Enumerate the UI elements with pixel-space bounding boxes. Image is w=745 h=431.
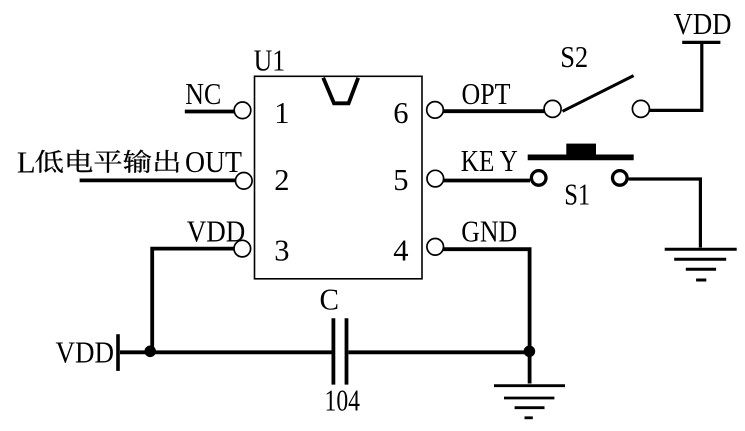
pin 6 circle xyxy=(427,102,444,119)
svg-text:3: 3 xyxy=(274,234,289,268)
annotation text glyph "出" (chu) xyxy=(155,150,179,173)
svg-text:S2: S2 xyxy=(560,39,588,74)
power terminal VDD bottom-left xyxy=(116,334,120,371)
svg-text:VDD: VDD xyxy=(187,213,246,248)
pushbutton S1 button cap xyxy=(566,144,596,155)
ground symbol right (under S1) xyxy=(665,249,737,280)
U1 orientation notch xyxy=(323,78,358,104)
pin 5 circle xyxy=(427,170,444,187)
svg-text:2: 2 xyxy=(274,163,289,197)
annotation text glyph "输" (shu) xyxy=(123,150,151,173)
svg-text:1: 1 xyxy=(274,96,289,130)
svg-text:VDD: VDD xyxy=(674,6,732,41)
wire pin6 OPT lead to S2 xyxy=(443,109,544,113)
annotation text glyph "电" (dian) xyxy=(68,150,93,172)
pin 4 circle xyxy=(427,239,444,256)
pin 2 circle xyxy=(236,173,253,190)
wire S2 to VDD supply xyxy=(649,44,702,111)
wire VDD rail left of capacitor xyxy=(120,350,332,354)
capacitor C left plate xyxy=(331,318,335,384)
svg-text:6: 6 xyxy=(393,96,408,130)
power terminal VDD top-right xyxy=(682,41,720,44)
svg-text:NC: NC xyxy=(185,76,221,111)
svg-text:GND: GND xyxy=(461,213,517,248)
wire S1 to ground xyxy=(629,179,701,248)
svg-text:C: C xyxy=(320,282,340,317)
wire pin2 OUT lead xyxy=(80,178,236,182)
wire pin1 NC lead xyxy=(185,110,235,114)
wire rail right of capacitor to GND node xyxy=(349,350,530,354)
pin 3 circle xyxy=(234,240,251,257)
switch S2 arm xyxy=(563,76,634,112)
switch S2 left contact circle xyxy=(544,100,561,117)
pushbutton S1 left contact circle xyxy=(531,171,546,186)
wire pin5 KEY lead to S1 xyxy=(444,179,530,183)
svg-text:OUT: OUT xyxy=(185,144,242,179)
annotation text glyph "平" (ping) xyxy=(95,150,122,173)
pushbutton S1 right contact circle xyxy=(613,171,628,186)
svg-text:L: L xyxy=(17,144,36,179)
svg-text:U1: U1 xyxy=(254,42,286,77)
capacitor C right plate xyxy=(345,318,349,384)
switch S2 right contact circle xyxy=(632,100,649,117)
ground symbol bottom-center xyxy=(494,386,565,418)
pin 1 circle xyxy=(234,102,251,119)
svg-text:OPT: OPT xyxy=(462,76,511,111)
svg-text:104: 104 xyxy=(325,383,361,418)
svg-text:5: 5 xyxy=(393,163,408,197)
wire pin4 GND lead down to ground xyxy=(444,249,530,383)
junction dot at GND rail right xyxy=(524,346,536,358)
svg-text:4: 4 xyxy=(393,234,408,268)
IC U1 body xyxy=(255,76,423,278)
wire pin3 VDD lead down to supply rail xyxy=(152,249,234,353)
junction dot at VDD rail left xyxy=(144,346,156,358)
pushbutton S1 bar xyxy=(528,154,634,160)
annotation text glyph "低" (di) xyxy=(35,150,62,173)
svg-text:VDD: VDD xyxy=(56,335,115,370)
svg-text:S1: S1 xyxy=(564,177,590,212)
svg-text:KE Y: KE Y xyxy=(461,143,518,178)
